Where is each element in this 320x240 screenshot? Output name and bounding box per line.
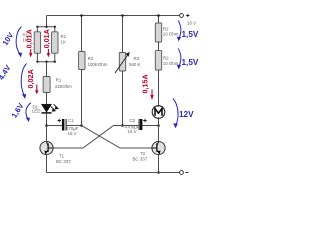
svg-text:R1: R1: [61, 34, 67, 39]
current arrow 0,01A left: [29, 49, 32, 57]
resistor R1 220 body: [43, 77, 50, 93]
wire R1 220 to LED: [46, 93, 48, 105]
LED D1 triangle: [41, 104, 51, 112]
voltage arc 1,5V upper: [177, 21, 181, 42]
node T2 emitter ground junction: [157, 171, 160, 174]
wire T2 emitter to rail: [158, 155, 160, 173]
wire motor to T2 collector: [158, 118, 160, 141]
wire left column stub: [46, 16, 48, 27]
node R2 top rail: [80, 14, 83, 17]
svg-text:1,5V: 1,5V: [182, 30, 199, 39]
svg-text:1,6V: 1,6V: [10, 101, 26, 120]
wire 10 Ohm to motor: [158, 70, 160, 106]
svg-text:0,01A: 0,01A: [24, 29, 33, 48]
capacitor C2 plates: [139, 119, 143, 130]
svg-text:C1: C1: [68, 118, 74, 123]
node C1 tee: [45, 124, 48, 127]
svg-text:0,15A: 0,15A: [140, 74, 149, 93]
svg-text:R2: R2: [163, 55, 169, 60]
svg-text:BC 337: BC 337: [56, 159, 71, 164]
svg-text:LED: LED: [32, 109, 41, 114]
svg-text:0,01A: 0,01A: [42, 29, 51, 48]
wire cap row to C2: [114, 125, 139, 127]
svg-text:16 V: 16 V: [68, 131, 77, 136]
node parallel block dots: [36, 26, 56, 63]
node right column top rail: [157, 14, 160, 17]
wire LED to T1 collector: [46, 114, 48, 142]
resistor R2 10Ohm upper body: [155, 23, 161, 42]
svg-text:10V: 10V: [1, 30, 16, 47]
svg-text:16 V: 16 V: [187, 20, 196, 25]
transistor T1 internals: [45, 142, 52, 154]
wire R3 bottom lead: [122, 71, 124, 126]
voltage arc 1,6V: [26, 103, 31, 122]
minus sign bottom right: [185, 172, 188, 174]
svg-text:R2: R2: [88, 56, 94, 61]
potentiometer R3 body: [119, 53, 125, 72]
capacitor C2 plus: [143, 119, 147, 123]
svg-text:R3: R3: [134, 56, 140, 61]
wire top rail: [47, 15, 182, 17]
wire R1a leads: [36, 27, 38, 62]
resistor R2 10Ohm lower body: [155, 51, 161, 70]
wire parallel block top bar: [37, 26, 54, 28]
capacitor C1 plates: [62, 119, 67, 131]
voltage arc 10V: [16, 27, 22, 58]
wire between 10 Ohm resistors: [158, 42, 160, 51]
transistor T2 circle: [152, 141, 165, 154]
wire C2 right lead: [143, 125, 159, 127]
transistor T1 emitter arrow: [44, 151, 47, 155]
svg-text:1K: 1K: [61, 40, 66, 45]
resistor R2 100K body: [79, 52, 85, 70]
wire parallel block bottom bar: [37, 61, 54, 63]
wire diagonal to T1 base: [53, 126, 114, 149]
svg-text:BC 337: BC 337: [133, 157, 148, 162]
svg-text:100KOhm: 100KOhm: [88, 62, 108, 67]
svg-text:C2: C2: [130, 118, 136, 123]
voltage arc 12V: [173, 99, 178, 129]
wire C1 right lead: [67, 125, 82, 127]
capacitor C1 plus: [58, 119, 62, 123]
wire R1b leads: [54, 27, 56, 62]
wire to R1 220: [46, 62, 48, 77]
svg-text:560 K: 560 K: [129, 62, 141, 67]
svg-text:12V: 12V: [179, 110, 194, 119]
svg-text:T1: T1: [59, 154, 65, 159]
node R3 top rail: [121, 14, 124, 17]
motor M letter: [155, 108, 162, 115]
voltage arc 1,5V lower: [177, 49, 181, 70]
potentiometer R3 arrow: [115, 52, 130, 73]
wire diagonal to T2 base: [82, 126, 152, 149]
node motor bottom junction: [157, 124, 160, 127]
svg-text:16 V: 16 V: [128, 129, 137, 134]
wire C1 left lead: [47, 125, 62, 127]
svg-text:R1: R1: [56, 78, 62, 83]
svg-text:1,5V: 1,5V: [182, 58, 199, 67]
node R2/C1 junction: [80, 124, 83, 127]
wire T1 emitter to rail: [46, 155, 48, 173]
wire R3 top lead: [122, 16, 124, 53]
svg-text:T2: T2: [140, 151, 146, 156]
resistor R1b body: [52, 32, 58, 53]
svg-text:10 Ohm: 10 Ohm: [163, 61, 179, 66]
transistor T2 emitter arrow: [158, 151, 161, 155]
LED emission arrows: [51, 104, 58, 111]
transistor T1 circle: [40, 141, 53, 154]
voltage arc 4,4V: [21, 64, 26, 99]
wire bottom ground rail: [47, 172, 180, 174]
svg-text:10 Ohm: 10 Ohm: [163, 31, 179, 36]
wire R2 100K top lead: [81, 16, 83, 52]
svg-text:0,02A: 0,02A: [26, 69, 35, 88]
wire right column top lead: [158, 16, 160, 24]
resistor R1a body: [34, 32, 40, 53]
current arrow 0,15A: [150, 90, 153, 101]
svg-text:220Ohm: 220Ohm: [55, 84, 72, 89]
motor pin dots: [158, 105, 160, 107]
transistor T2 internals: [152, 142, 160, 154]
current arrow 0,02A: [35, 85, 38, 95]
LED D1 cathode bar: [41, 112, 51, 114]
plus sign top right: [186, 14, 189, 17]
motor M circle: [152, 106, 165, 119]
current arrow 0,01A right: [47, 49, 50, 57]
wire R2 100K bottom lead: [81, 70, 83, 126]
node R3/C2 junction: [121, 124, 124, 127]
terminal plus top right: [180, 14, 184, 18]
terminal minus bottom right: [180, 171, 184, 175]
svg-text:4.4V: 4.4V: [0, 63, 13, 82]
